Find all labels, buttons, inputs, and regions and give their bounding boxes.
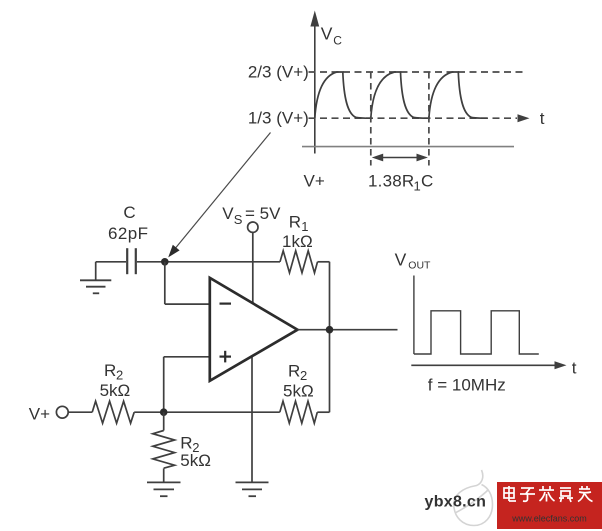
wire: opamp ground pin to ground (251, 352, 253, 482)
svg-text:www.elecfans.com: www.elecfans.com (511, 514, 587, 524)
svg-text:C: C (123, 203, 135, 222)
resistor R2 5kOhm (left) (92, 361, 134, 423)
svg-text:5kΩ: 5kΩ (283, 382, 314, 401)
svg-text:1/3 (V+): 1/3 (V+) (248, 109, 309, 128)
power terminal VS = 5V (222, 204, 281, 306)
capacitor C1 62pF (96, 203, 149, 274)
svg-text:V: V (222, 204, 234, 223)
node period arrow 1.38R1C (368, 154, 433, 194)
svg-text:V: V (321, 24, 333, 44)
node 2/3(V+) threshold dashed line (248, 62, 523, 81)
node period marker dashed verticals (370, 72, 372, 166)
svg-text:t: t (572, 359, 577, 378)
svg-text:= 5V: = 5V (245, 204, 281, 223)
svg-text:C: C (421, 171, 433, 190)
svg-text:R: R (180, 434, 192, 453)
wire: noninverting input from bottom rail (164, 357, 210, 412)
svg-text:R: R (289, 213, 301, 232)
svg-text:V: V (395, 249, 407, 269)
svg-text:62pF: 62pF (108, 224, 148, 243)
node baseline (302, 146, 514, 148)
svg-text:1kΩ: 1kΩ (282, 232, 313, 251)
wire: output square wave (414, 276, 539, 355)
wire: output (298, 329, 398, 331)
svg-text:S: S (234, 212, 243, 227)
op-amp U1 (210, 278, 298, 381)
svg-text:V+: V+ (304, 171, 325, 190)
node 1/3(V+) threshold dashed line with t axis arrow (248, 109, 545, 128)
svg-text:5kΩ: 5kΩ (180, 451, 211, 470)
svg-text:R: R (288, 362, 300, 381)
resistor R1 1kOhm (280, 213, 330, 273)
resistor R2 5kOhm (right feedback) (280, 362, 330, 424)
node junction dot at +IN / R2 (160, 408, 168, 416)
wire: pointer from 1/3(V+) to capacitor node (168, 133, 270, 258)
ground left (capacitor ground) (80, 262, 111, 294)
node VOUT label (395, 249, 431, 271)
node junction dot at capacitor / -IN (161, 258, 169, 266)
wire: capacitor voltage waveform humps (315, 72, 487, 118)
node output t axis (411, 359, 577, 378)
wire: bottom rail (134, 411, 280, 413)
ground below op-amp (236, 482, 269, 496)
node A: Vc axis (310, 11, 342, 154)
wire: top rail from capacitor to R1 (137, 261, 280, 263)
svg-text:2/3 (V+): 2/3 (V+) (248, 62, 309, 81)
ground below vertical R2 (147, 482, 181, 496)
fake CJK glyphs (dian zi fa shao you) (504, 486, 593, 502)
terminal V+ input (29, 404, 92, 423)
svg-text:OUT: OUT (408, 259, 431, 271)
svg-text:C: C (333, 34, 342, 48)
svg-text:1.38R: 1.38R (368, 171, 414, 190)
svg-text:V+: V+ (29, 404, 50, 423)
node output junction dot (326, 326, 334, 334)
svg-text:5kΩ: 5kΩ (100, 381, 131, 400)
svg-text:1: 1 (414, 178, 421, 193)
wire: right vertical rail (R1 and R2 to output) (329, 262, 331, 412)
wire: node to inverting input (165, 262, 210, 304)
svg-text:ybx8.cn: ybx8.cn (425, 494, 487, 511)
resistor R2 5kOhm (vertical) (153, 412, 211, 481)
svg-text:t: t (540, 109, 545, 128)
svg-text:f = 10MHz: f = 10MHz (428, 375, 506, 394)
logo swoosh (454, 470, 493, 526)
watermark red box elecfans (497, 482, 602, 529)
svg-text:R: R (104, 361, 116, 380)
